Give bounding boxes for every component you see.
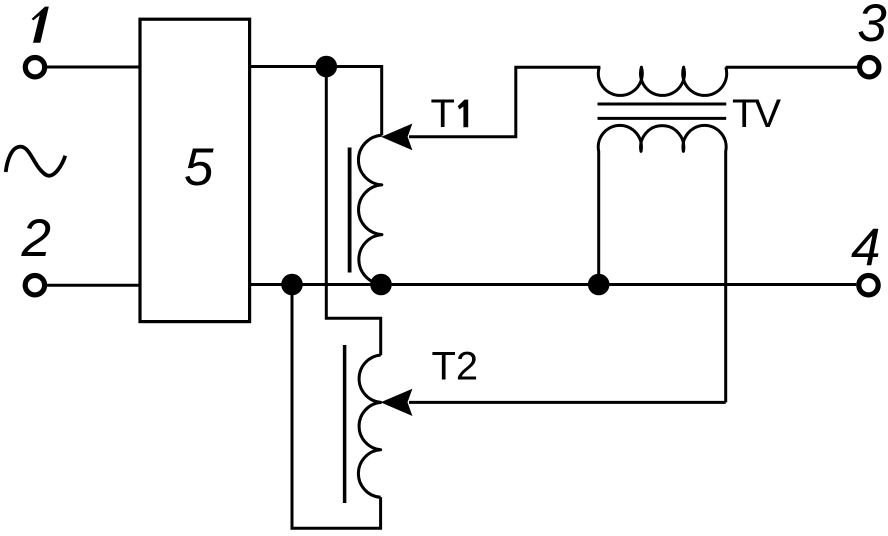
wire T1 arrow to riser <box>409 67 600 137</box>
wire T2 arrow to TV secondary <box>409 401 726 404</box>
T2 core bar <box>343 345 347 503</box>
AC source symbol <box>6 147 66 176</box>
wire TV primary to terminal 3 <box>726 66 858 69</box>
transformer TV primary winding <box>598 67 726 95</box>
terminal 1 <box>25 57 44 76</box>
svg-text:3: 3 <box>857 0 887 53</box>
junction node D4 <box>588 274 610 296</box>
wire D2 down and bottom return to T2 <box>292 285 381 529</box>
TV core <box>598 103 727 106</box>
svg-text:TV: TV <box>732 92 781 136</box>
wire terminal1 to block5 <box>47 66 140 69</box>
label 1 <box>32 7 49 43</box>
T1 control arrow <box>381 124 412 151</box>
junction node D3 <box>370 274 392 296</box>
saturable reactor T2 winding <box>358 355 380 497</box>
wire terminal2 to block5 <box>47 284 140 287</box>
block 5 (rectifier box) <box>140 19 250 321</box>
transformer TV secondary winding <box>598 125 726 402</box>
T1 core bar <box>348 148 352 273</box>
wire D1 down to T2 feed <box>326 67 380 356</box>
wire block5 to T1 top corner <box>250 67 382 136</box>
svg-text:4: 4 <box>851 218 880 277</box>
T2 control arrow <box>381 389 413 416</box>
junction node D2 <box>281 274 303 296</box>
terminal 2 <box>25 276 44 295</box>
svg-text:T: T <box>431 92 455 136</box>
terminal 3 <box>860 57 879 76</box>
svg-text:2: 2 <box>21 209 51 268</box>
junction node D1 <box>316 56 338 78</box>
svg-text:5: 5 <box>184 138 214 197</box>
saturable reactor T1 winding <box>358 135 381 284</box>
terminal 4 <box>859 276 878 295</box>
mid rail wire block5 to terminal 4 <box>250 283 857 286</box>
svg-text:T2: T2 <box>432 345 479 389</box>
